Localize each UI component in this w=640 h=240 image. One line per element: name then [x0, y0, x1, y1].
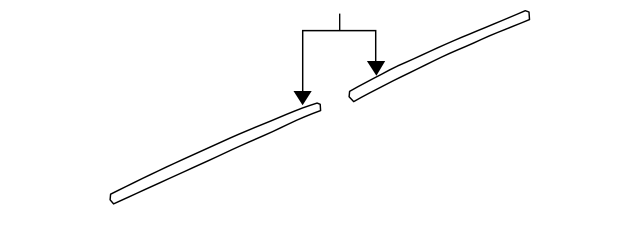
arrowhead right: [367, 61, 385, 76]
callout stub line: [339, 14, 341, 31]
callout bracket wire: [303, 31, 376, 93]
molding strip left: [110, 103, 321, 204]
molding strip right: [349, 11, 529, 102]
arrowhead left: [294, 91, 312, 105]
